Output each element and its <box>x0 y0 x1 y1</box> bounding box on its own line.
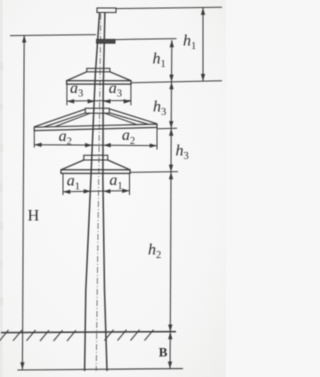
arrow a3 left-in <box>88 99 95 103</box>
arrow v bottom <box>168 362 172 369</box>
crossarm 2 left truss mid <box>55 113 90 126</box>
tick a2 left <box>33 131 35 148</box>
svg-text:B: B <box>159 345 168 360</box>
hatch 2 <box>13 330 22 341</box>
dimension outer h1 line <box>202 8 204 82</box>
wire: top extension line <box>116 7 222 8</box>
crossarm 1 right slant <box>110 72 131 81</box>
crossarm 3 cap <box>84 155 108 160</box>
hatch 1 <box>0 330 9 341</box>
hatch 6 <box>67 330 76 341</box>
dimension a2 line <box>34 144 157 147</box>
arrow a1 right-in <box>103 189 110 193</box>
hatch 10 <box>145 330 154 341</box>
crossarm 2 right truss bottom <box>109 113 148 124</box>
arrow outer h1 bottom <box>201 74 205 81</box>
arrow h2 top <box>169 172 173 179</box>
arrow h3a top <box>169 82 173 89</box>
top bracket bar <box>97 8 116 13</box>
arrow v top <box>168 332 172 339</box>
tick a1 left <box>62 173 64 195</box>
dimension chain inner: v (burial depth) <box>169 332 171 369</box>
dimension chain inner: h3 upper <box>170 82 172 128</box>
tick a1 right <box>129 173 131 195</box>
wire: crossarm3 right extension <box>130 171 178 174</box>
crossarm 2 bar <box>34 124 157 131</box>
svg-text:H: H <box>28 208 40 225</box>
crossarm 1 left slant <box>67 72 87 81</box>
arrow a3 right-out <box>124 99 131 103</box>
arrow h1 inner top <box>170 40 174 47</box>
second bracket bar <box>97 39 116 43</box>
arrow outer h1 top <box>201 8 205 15</box>
dimension chain inner: h2 <box>169 172 172 332</box>
arrow h3a bottom <box>169 121 173 128</box>
arrow h3b bottom <box>169 165 173 172</box>
dimension chain inner: h3 lower <box>170 129 172 172</box>
crossarm 1 cap <box>87 68 110 71</box>
arrow a2 left-in <box>85 143 92 147</box>
crossarm 3 right slant <box>108 160 130 170</box>
arrow h1 inner bottom <box>169 75 173 82</box>
left margin scan smudges <box>0 62 3 305</box>
ground line <box>1 332 176 333</box>
crossarm 1 bar <box>67 81 131 84</box>
hatch 4 <box>40 330 49 341</box>
dimension a3 line <box>67 100 131 103</box>
pole left edge <box>85 12 100 371</box>
arrow a2 right-out <box>150 143 157 147</box>
tick a3 right <box>130 84 132 105</box>
hatch 7 <box>105 330 114 341</box>
arrow h2 bottom <box>168 325 172 332</box>
arrow a1 right-out <box>122 189 129 193</box>
hatch 5 <box>54 330 63 341</box>
crossarm 2 left truss bottom <box>44 113 85 127</box>
crossarm 2 right truss mid <box>104 113 137 125</box>
crossarm 3 bar <box>61 170 130 174</box>
dimension chain inner: h1 <box>171 40 173 82</box>
arrow h3b top <box>169 129 173 136</box>
wire: crossarm2 right extension <box>157 127 177 130</box>
bottom line (pole base) <box>17 369 183 370</box>
tick a2 right <box>156 127 158 149</box>
arrow H bottom <box>20 362 24 369</box>
pole center line <box>96 14 101 371</box>
arrow a1 left-in <box>84 189 91 193</box>
arrow a3 left-out <box>67 99 74 103</box>
hatch 3 <box>27 330 36 341</box>
arrow H top <box>22 35 26 42</box>
tick a3 left <box>66 84 68 105</box>
crossarm 2 left truss top <box>34 109 85 127</box>
pole right edge <box>103 12 107 371</box>
arrow a2 left-out <box>34 143 41 147</box>
crossarm 3 left slant <box>61 160 84 170</box>
arrow a3 right-in <box>103 99 110 103</box>
crossarm 2 right truss top <box>109 109 157 124</box>
wire: crossarm1 right extension <box>131 81 222 83</box>
arrow a1 left-out <box>63 190 70 194</box>
crossarm 2 cap <box>85 108 109 113</box>
hatch 9 <box>131 330 140 341</box>
paper background <box>0 0 226 377</box>
wire: H top extension line <box>10 35 96 36</box>
arrow a2 right-in <box>103 143 110 147</box>
hatch 8 <box>118 330 127 341</box>
wire: second extension line <box>115 39 177 40</box>
dimension a1 line <box>63 191 130 192</box>
dimension H vertical line <box>22 35 24 369</box>
